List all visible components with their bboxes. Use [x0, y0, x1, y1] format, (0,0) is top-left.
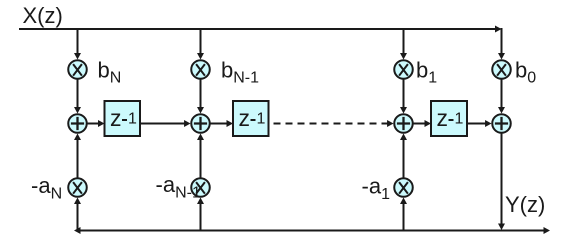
svg-text:z: z — [437, 105, 449, 131]
wire: dashed ellipsis from delay D2 toward adder A3 — [274, 123, 389, 125]
svg-text:X(z): X(z) — [23, 3, 63, 28]
wire: feedback arrowhead left at bottom-left corner — [74, 227, 81, 234]
wire: b0 multiplier down to adder — [501, 79, 503, 108]
adder A1 summing junction — [68, 114, 87, 133]
delay D3 z^-1 block — [431, 101, 467, 136]
wire: output arrowhead right on bottom line — [544, 227, 551, 234]
wire: -aN-1 multiplier up to adder — [200, 140, 202, 179]
wire: adder A2 to delay D2 — [210, 123, 228, 125]
adder A4 summing junction — [492, 114, 511, 133]
multiplier -a1 — [394, 178, 413, 197]
wire: bN multiplier down to adder — [77, 79, 79, 108]
multiplier bN-1 — [191, 60, 210, 79]
multiplier bN — [68, 60, 87, 79]
svg-text:z: z — [239, 105, 251, 131]
wire: b1 multiplier down to adder — [403, 79, 405, 108]
wire: delay D1 to adder A2 — [140, 123, 186, 125]
svg-text:1: 1 — [257, 111, 266, 128]
wire: -aN multiplier up to adder — [77, 140, 79, 179]
adder A3 summing junction — [394, 114, 413, 133]
multiplier -aN — [68, 178, 87, 197]
wire: top-right drop to b0 multiplier — [501, 28, 503, 54]
wire: adder A4 down to output node — [501, 133, 503, 225]
wire: adder A3 to delay D3 — [413, 123, 426, 125]
multiplier b1 — [394, 60, 413, 79]
wire: delay D3 to adder A4 — [467, 123, 486, 125]
multiplier -aN-1 — [191, 178, 210, 197]
delay D2 z^-1 block — [233, 101, 269, 136]
wire: arrowhead at top-right corner — [495, 26, 502, 33]
wire: top distribution line — [19, 28, 496, 30]
svg-text:z: z — [110, 105, 122, 131]
wire: bottom feedback line — [80, 230, 545, 232]
multiplier b0 — [492, 60, 511, 79]
svg-text:1: 1 — [455, 111, 464, 128]
wire: tap drop to bN-1 multiplier — [200, 29, 202, 54]
wire: bN-1 multiplier down to adder — [200, 79, 202, 108]
wire: tap drop to bN multiplier — [77, 29, 79, 54]
wire: feedback riser column to -aN-1 multiplier — [200, 204, 202, 232]
wire: adder A1 to delay D1 — [87, 123, 99, 125]
svg-text:Y(z): Y(z) — [505, 192, 545, 217]
wire: feedback riser column to -aN multiplier — [77, 204, 79, 232]
svg-text:1: 1 — [128, 111, 137, 128]
wire: feedback riser column to -a1 multiplier — [403, 204, 405, 232]
delay D1 z^-1 block — [105, 101, 141, 136]
adder A2 summing junction — [191, 114, 210, 133]
wire: -a1 multiplier up to adder — [403, 140, 405, 179]
wire: tap drop to b1 multiplier — [403, 29, 405, 54]
